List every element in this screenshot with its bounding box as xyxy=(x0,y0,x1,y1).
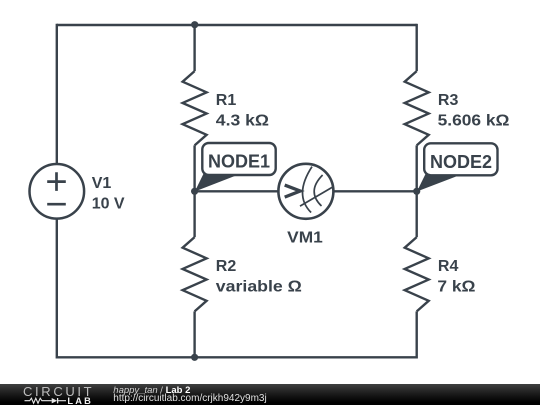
wire xyxy=(57,356,417,358)
svg-text:R1: R1 xyxy=(216,92,237,109)
resistor R3 xyxy=(405,71,429,145)
svg-text:variable Ω: variable Ω xyxy=(216,279,302,296)
svg-text:7 kΩ: 7 kΩ xyxy=(437,279,475,296)
footer url xyxy=(113,393,266,404)
svg-text:4.3 kΩ: 4.3 kΩ xyxy=(216,113,269,130)
svg-text:R2: R2 xyxy=(216,258,237,275)
wire xyxy=(416,311,418,358)
logo resistor-diode glyph xyxy=(24,396,70,406)
node NODE2 callout xyxy=(417,143,498,191)
svg-text:V1: V1 xyxy=(92,175,112,192)
wire xyxy=(333,190,417,192)
node NODE1 callout xyxy=(195,143,276,192)
label R2 variable Ω xyxy=(216,258,302,295)
label R3 5.606 kΩ xyxy=(438,92,510,130)
svg-text:10 V: 10 V xyxy=(92,195,125,212)
svg-text:5.606 kΩ: 5.606 kΩ xyxy=(438,113,510,130)
label R4 7 kΩ xyxy=(437,258,475,295)
label V1 10 V xyxy=(92,175,125,213)
wire xyxy=(416,24,418,71)
wire xyxy=(57,24,417,26)
junction dot NODE2 xyxy=(413,188,420,195)
logo LAB word xyxy=(67,396,93,406)
wire xyxy=(193,145,195,237)
label R1 4.3 kΩ xyxy=(216,92,269,130)
wire xyxy=(56,24,58,165)
wire xyxy=(416,145,418,237)
resistor R2 xyxy=(183,237,207,311)
wire xyxy=(56,218,58,358)
svg-text:NODE1: NODE1 xyxy=(208,152,270,172)
resistor R1 xyxy=(183,71,207,145)
voltage source V1 xyxy=(30,164,85,219)
junction dot NODE1 xyxy=(191,188,198,195)
svg-text:R3: R3 xyxy=(438,92,459,109)
wire xyxy=(193,311,195,358)
svg-text:NODE2: NODE2 xyxy=(430,152,492,172)
footer bar xyxy=(0,384,540,405)
junction dot xyxy=(191,21,198,28)
junction dot xyxy=(191,354,198,361)
footer title xyxy=(113,385,190,396)
svg-text:R4: R4 xyxy=(438,258,459,275)
wire xyxy=(195,190,280,192)
svg-text:VM1: VM1 xyxy=(287,229,323,246)
wire xyxy=(193,24,195,71)
logo CIRCUIT word xyxy=(23,384,94,399)
voltmeter VM1 xyxy=(278,164,333,219)
resistor R4 xyxy=(405,237,429,311)
